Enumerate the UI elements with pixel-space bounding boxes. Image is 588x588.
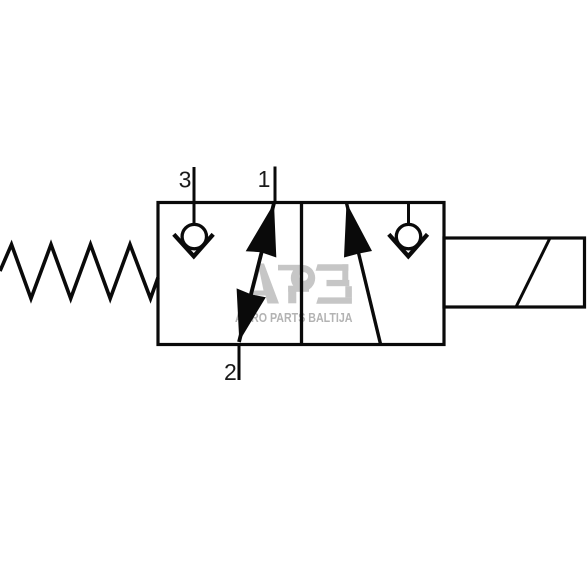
spring	[0, 245, 158, 299]
port 1 line	[274, 167, 277, 203]
valve body outer box	[158, 203, 444, 345]
valve body divider	[300, 203, 303, 345]
solenoid slash	[516, 238, 550, 307]
check valve left: circle	[182, 224, 206, 248]
check valve left: V seat	[174, 234, 213, 256]
left arrow head bottom	[237, 288, 266, 341]
left arrow head top	[246, 203, 277, 257]
port 3 line	[193, 167, 196, 224]
check valve right: V seat	[389, 234, 428, 256]
right arrow shaft	[347, 203, 381, 344]
port 2 line	[238, 345, 241, 381]
check valve right: circle	[396, 224, 420, 248]
watermark logo APB	[246, 264, 352, 304]
svg-text:3: 3	[179, 167, 192, 193]
check valve right: stub	[407, 203, 410, 225]
svg-text:2: 2	[224, 359, 237, 385]
solenoid box	[444, 238, 585, 307]
svg-text:1: 1	[258, 166, 271, 192]
left arrow shaft (ports 1-2)	[239, 203, 274, 342]
right arrow head	[344, 203, 372, 258]
